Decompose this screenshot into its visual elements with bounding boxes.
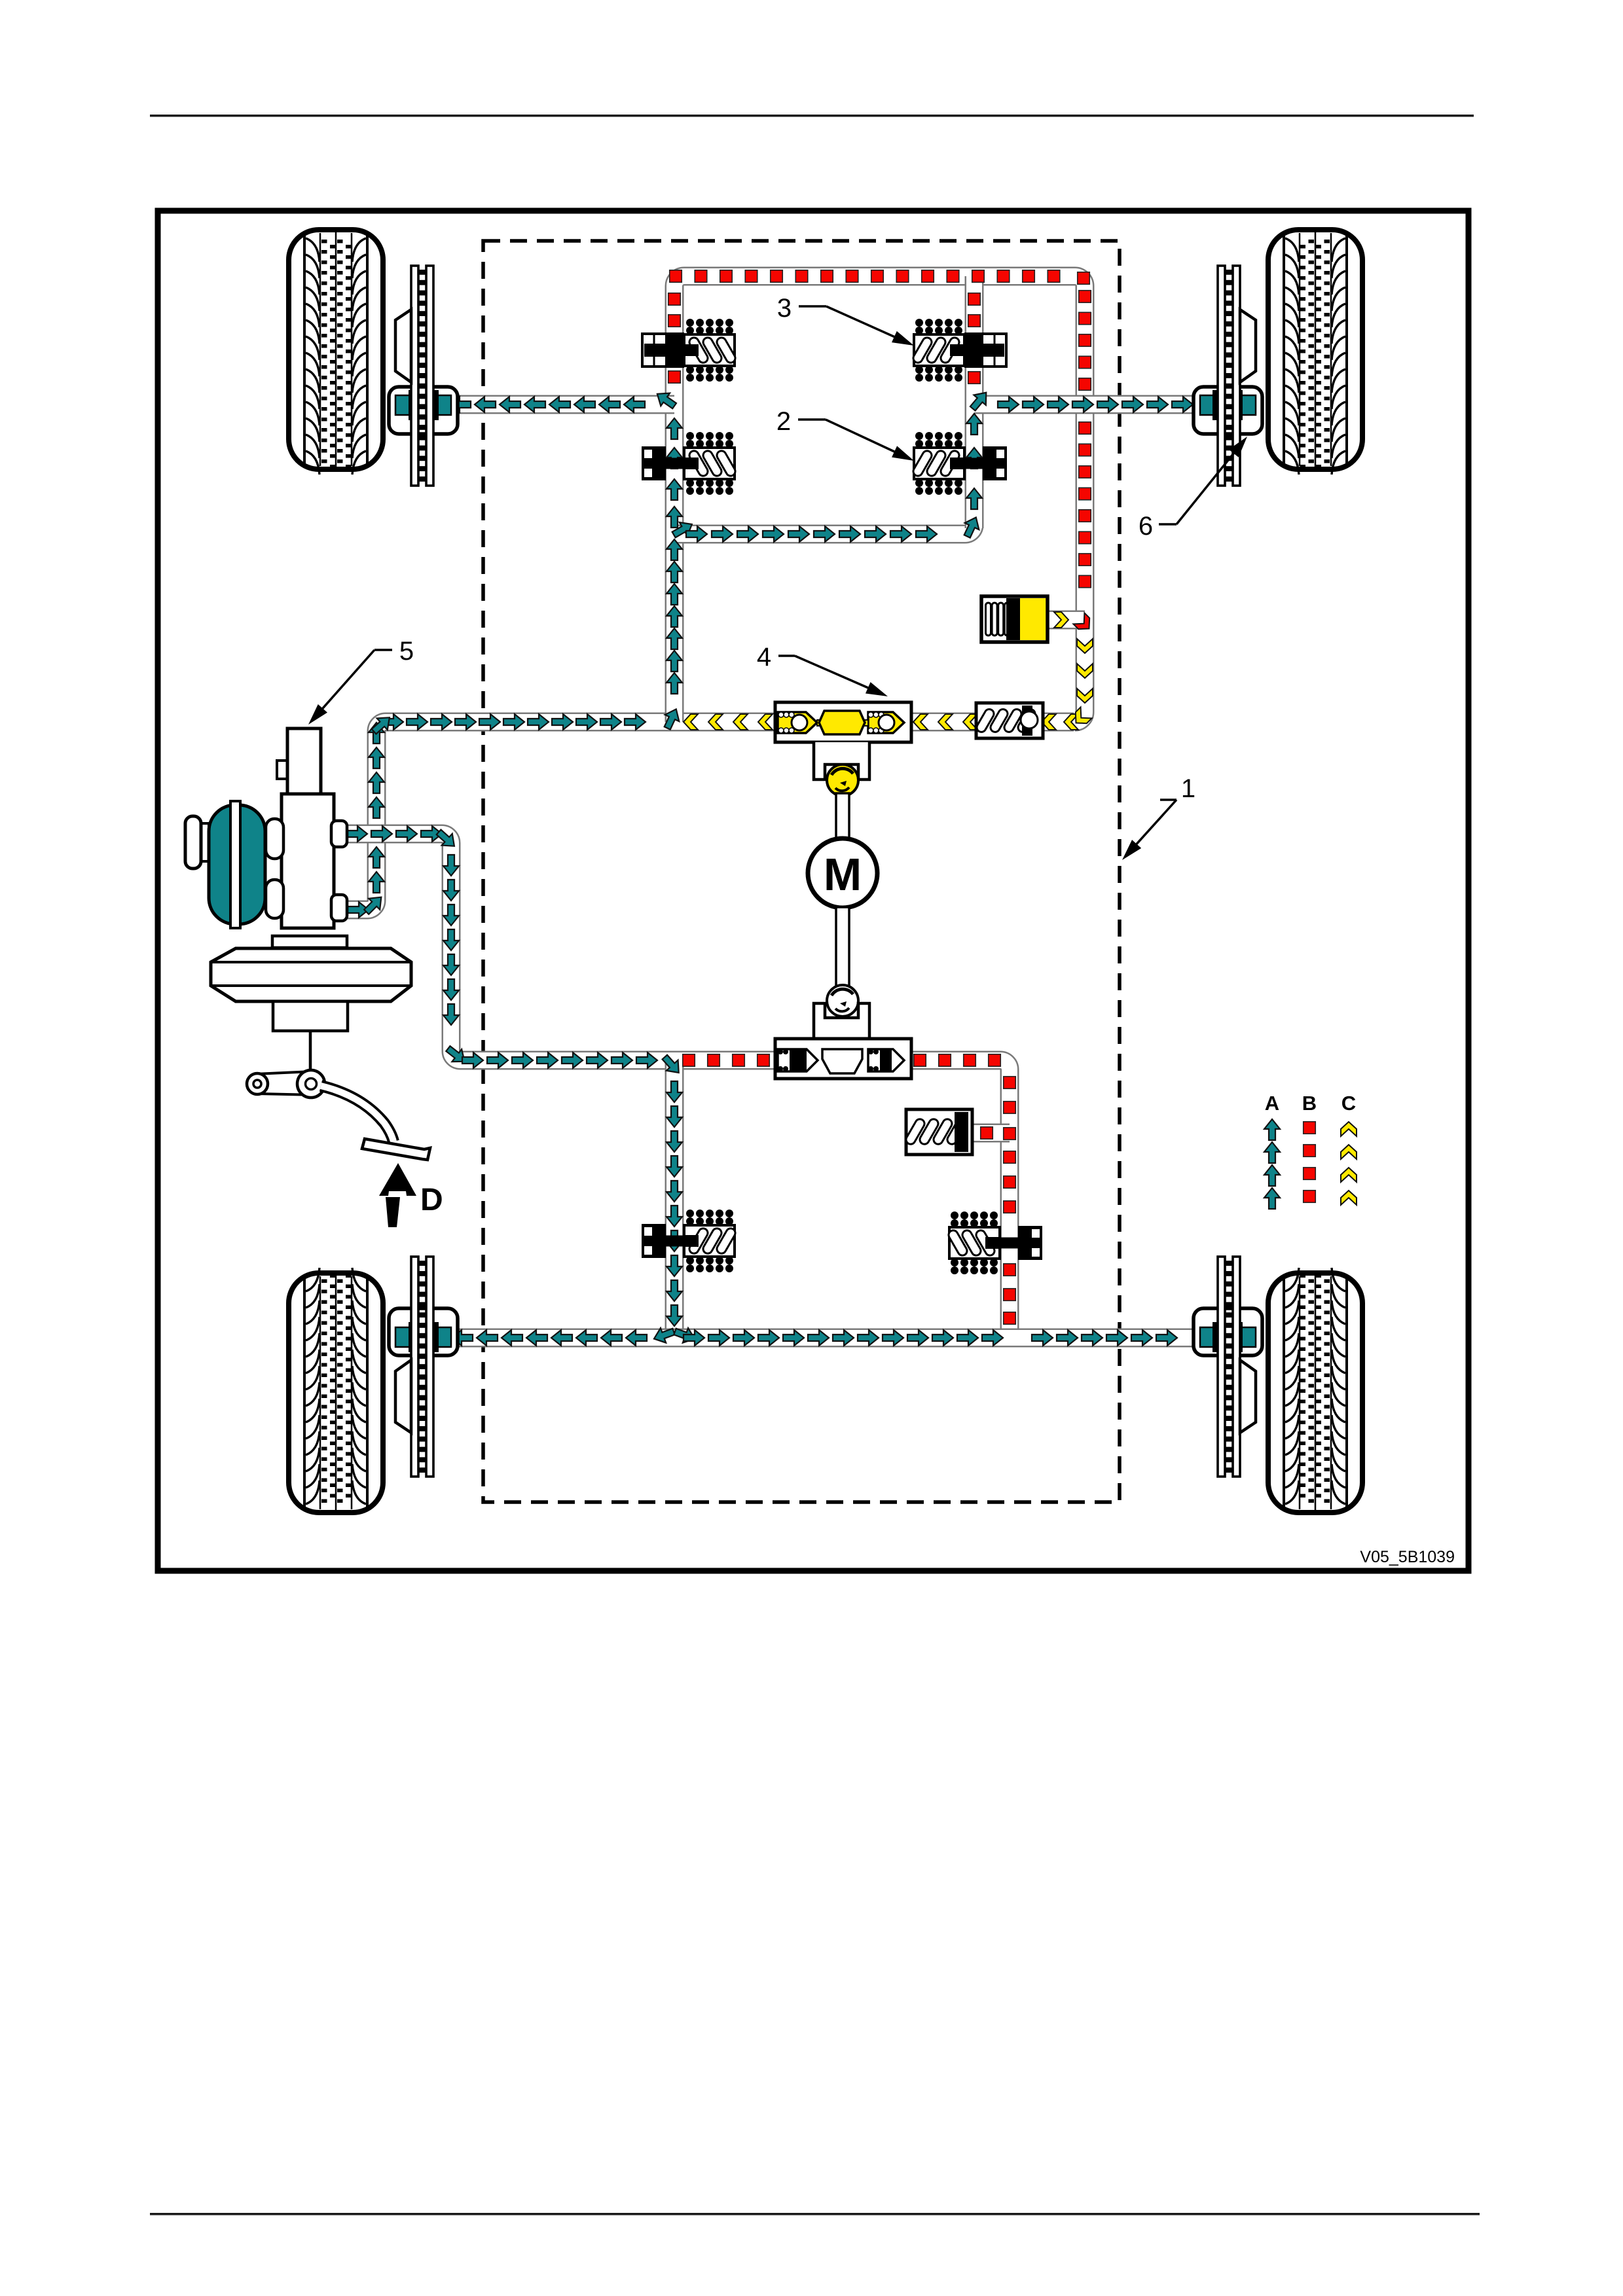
pipe: front left riser, top pressure line and return column	[674, 276, 1085, 722]
pump motor drive shaft lower	[836, 907, 849, 987]
pressure accumulator sphere (teal)	[209, 805, 265, 924]
solenoid valve - rear left outlet	[642, 1210, 737, 1272]
front pump unit body (item 4)	[775, 702, 911, 742]
electric motor M	[808, 838, 877, 908]
front pump eccentric cam	[827, 764, 858, 796]
pipe: front axle right branch	[974, 395, 1202, 414]
front pump right piston	[868, 712, 904, 733]
flow arrows A - rear axle right pipe	[450, 397, 471, 412]
pipe: master cylinder primary circuit to rear	[346, 834, 1010, 1338]
svg-text:B: B	[1302, 1092, 1317, 1115]
svg-text:M: M	[824, 849, 862, 900]
accumulator left nub	[185, 816, 201, 869]
vacuum servo booster disc	[211, 948, 411, 1001]
low pressure accumulator front	[981, 596, 1048, 642]
rear pump eccentric cam	[827, 985, 858, 1016]
svg-text:6: 6	[1139, 512, 1153, 541]
page top rule	[150, 115, 1474, 117]
svg-text:D: D	[420, 1183, 443, 1217]
brake pedal pad	[362, 1139, 430, 1160]
diagram border frame	[158, 211, 1468, 1571]
solenoid valve 3 - front right inlet	[911, 319, 1006, 382]
front pump eccentric chamber	[817, 720, 824, 726]
rear pump right piston	[868, 1049, 904, 1071]
svg-text:3: 3	[777, 294, 792, 323]
master cylinder outlet ports	[331, 821, 347, 847]
front damper chamber	[976, 703, 1043, 738]
svg-text:V05_5B1039: V05_5B1039	[1360, 1548, 1455, 1566]
pushrod	[309, 1031, 312, 1080]
booster stem	[273, 1001, 348, 1031]
front pump drive bracket	[814, 742, 869, 780]
brake pedal arm	[321, 1086, 393, 1141]
svg-text:4: 4	[757, 643, 771, 672]
front left wheel, brake disc and cylinder	[289, 230, 458, 486]
rear pump eccentric chamber	[822, 1049, 862, 1073]
rear left wheel, brake disc and cylinder	[289, 1257, 458, 1513]
legend B red squares	[1304, 1122, 1316, 1134]
pipe: rear accumulator stub	[970, 1124, 1010, 1143]
master cylinder left unions	[266, 819, 283, 859]
pipe: rear axle line	[450, 1329, 1202, 1348]
pipe: front jog line	[674, 511, 974, 534]
svg-text:C: C	[1341, 1092, 1356, 1115]
rear pump drive bracket	[814, 1003, 869, 1039]
svg-text:2: 2	[776, 407, 791, 436]
rear right wheel, brake disc and cylinder	[1194, 1257, 1362, 1513]
solenoid valve 2 - front right outlet	[911, 432, 1007, 495]
brake fluid reservoir	[277, 761, 287, 779]
pedal force arrow D	[386, 1197, 400, 1227]
solenoid valve 2 - front left outlet	[642, 432, 737, 495]
front right wheel, brake disc and cylinder (item 6 points here)	[1194, 230, 1362, 486]
servo booster flange	[272, 936, 347, 948]
accumulator link	[194, 823, 209, 861]
pipe: master cylinder secondary circuit to pump junction	[346, 722, 1074, 910]
rear accumulator chamber	[906, 1109, 972, 1155]
rear pump left piston	[778, 1049, 818, 1071]
svg-text:A: A	[1265, 1092, 1279, 1115]
legend C yellow chevrons	[1341, 1122, 1357, 1136]
pipe: rear left riser	[665, 1060, 684, 1338]
pump motor drive shaft upper	[836, 793, 849, 841]
pedal bellcrank	[255, 1071, 316, 1095]
solenoid valve 3 - front left inlet	[642, 319, 737, 382]
rear pump unit body	[775, 1039, 911, 1079]
solenoid valve - rear right outlet	[947, 1211, 1042, 1274]
legend A teal arrows	[1264, 1119, 1280, 1140]
pipe: low pressure accumulator stub	[1045, 611, 1085, 630]
page bottom rule	[150, 2213, 1480, 2215]
pipe: front right riser	[965, 276, 984, 528]
pipe: front axle left branch	[450, 395, 674, 414]
front pump left piston	[778, 712, 817, 733]
dashed outline of hydraulic unit (item 1)	[483, 241, 1120, 1502]
svg-text:5: 5	[399, 637, 414, 666]
svg-text:1: 1	[1181, 774, 1195, 803]
master cylinder body (item 5)	[282, 794, 334, 928]
